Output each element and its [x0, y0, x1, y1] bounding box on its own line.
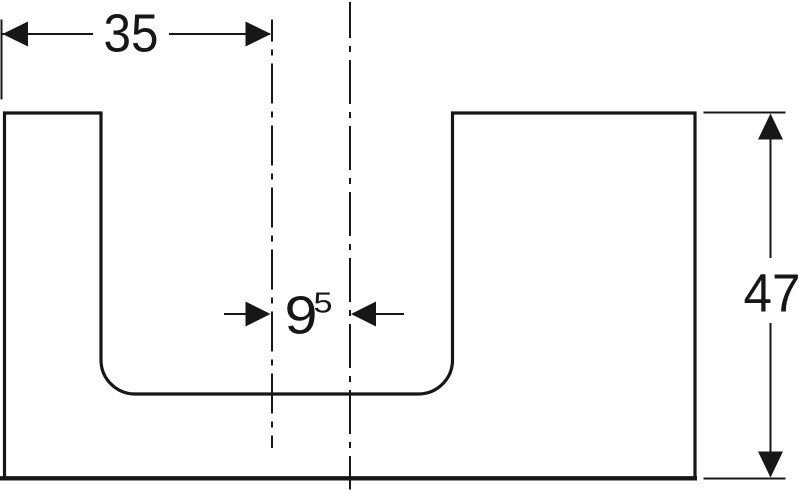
dimension 35: dimension line left segment — [3, 33, 94, 35]
dimension 47: bottom extension line — [704, 478, 786, 480]
svg-text:47: 47 — [744, 265, 799, 324]
svg-text:35: 35 — [104, 5, 159, 64]
dimension 9.5: right-pointing arrowhead — [246, 302, 271, 327]
dimension 9.5: left-pointing arrowhead — [351, 302, 376, 327]
dimension 47: top arrowhead — [758, 114, 783, 140]
dimension 9.5: right leader line — [376, 313, 405, 315]
dimension 35: left arrowhead — [3, 22, 29, 47]
dimension 35: dimension line right segment — [169, 33, 270, 35]
dimension 47: dimension line lower segment — [770, 323, 772, 476]
dimension 35: right arrowhead — [246, 22, 272, 47]
dimension 47: top extension line — [704, 112, 786, 114]
dimension 47: bottom arrowhead — [758, 452, 783, 478]
ground line (bottom thick line) — [0, 476, 697, 480]
profile outline of channel cross-section — [5, 113, 696, 478]
center line A (left dash-dot) — [271, 20, 273, 449]
center line B (right dash-dot) — [349, 2, 351, 490]
dimension 47: dimension line upper segment — [770, 115, 772, 258]
svg-text:5: 5 — [314, 288, 333, 320]
dimension 35: left extension line — [1, 20, 3, 100]
dimension 9.5: left leader line — [224, 313, 246, 315]
